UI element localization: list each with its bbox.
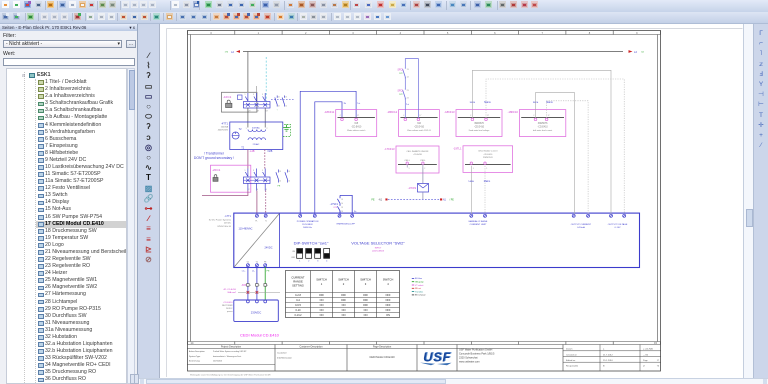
green PE link to ground xyxy=(283,125,291,137)
junction dot left xyxy=(386,199,388,201)
cable marker line xyxy=(238,291,280,293)
switch -17SF1 bracket xyxy=(339,211,341,215)
left drawing tool strip xyxy=(139,24,159,384)
signal wire -19TL1 lane to module xyxy=(470,166,472,215)
toolbar row 2 xyxy=(0,12,768,24)
terminal pair output voltage xyxy=(610,214,613,217)
auxiliary contacts -2FC1 xyxy=(278,170,280,173)
target arrow L2 right xyxy=(623,50,633,53)
indicator lamp symbol xyxy=(232,132,239,139)
toolbar row 1 xyxy=(0,0,768,12)
signal wire -19TL1 mains to module dashed xyxy=(484,166,486,215)
left pages panel xyxy=(0,24,138,384)
circuit breaker -2FC1 enclosure xyxy=(211,165,251,192)
relay coil -17KF9 xyxy=(418,184,429,193)
white drawing canvas xyxy=(159,24,743,378)
relay box -18KF11 xyxy=(336,110,377,137)
ground symbol xyxy=(286,125,288,128)
wires breaker to transformer xyxy=(247,108,249,128)
rectifier load box xyxy=(234,300,278,321)
wire colour legend xyxy=(412,277,414,279)
converter section divider xyxy=(279,213,281,267)
signal route -18KF10 lane xyxy=(536,93,575,215)
relay box -18KF13 xyxy=(456,110,502,137)
signal route -18KF13 mains dashed xyxy=(486,79,624,214)
breaker poles -1FC1 xyxy=(247,93,249,101)
wire -17KF13 to -17KF9 xyxy=(422,168,424,184)
title block grid xyxy=(187,348,563,350)
converter diagonal xyxy=(234,214,279,267)
breaker contact row -1FC1 xyxy=(244,102,271,109)
wire L2 bus xyxy=(243,51,623,53)
auxiliary contacts -1FC1 xyxy=(276,96,278,98)
terminal pair cell inhibit xyxy=(470,214,473,217)
relay box -17KF13 cell inhibits xyxy=(396,146,439,173)
wire N2B dashed transformer to -2FC1 xyxy=(264,150,266,169)
wire drop from L2 to -1FC1 xyxy=(247,52,249,93)
sheet boundary lines xyxy=(166,29,168,378)
signal route -18KF13 lane xyxy=(472,70,611,214)
CEDI module main box xyxy=(234,213,640,267)
breaker poles -2FC1 xyxy=(247,169,249,177)
dashed link aux contacts xyxy=(271,99,295,101)
terminal L on module xyxy=(255,214,258,217)
frame column ticks bottom xyxy=(187,342,189,345)
wire stub at x258 xyxy=(256,86,258,92)
current range setting table xyxy=(286,271,400,318)
terminal pair output current xyxy=(572,214,575,217)
wire -17KF9 to N line xyxy=(422,193,424,200)
transformer -4TT1 box xyxy=(230,122,283,150)
right toolbar xyxy=(753,24,768,384)
drawing frame outer border xyxy=(188,31,661,372)
transformer primary winding xyxy=(248,130,266,132)
drawing frame inner border lines xyxy=(188,34,661,36)
signal route -18KF10 mains dashed xyxy=(547,101,589,215)
relay box -19TL1 cell module current xyxy=(463,146,513,173)
transformer secondary winding xyxy=(248,138,266,140)
source arrow L2 left xyxy=(236,50,246,53)
frame column ticks top xyxy=(187,31,189,35)
panel bottom scroll buttons xyxy=(130,374,135,384)
wire module to -18KF11 right xyxy=(300,91,356,214)
terminal N on module xyxy=(264,214,267,217)
wire -2FC1 to CEDI L xyxy=(256,191,258,215)
module output terminals U2 V2 PE xyxy=(246,264,249,267)
horizontal scrollbar xyxy=(139,378,768,384)
terminal pair power operation xyxy=(299,214,302,217)
terminal strip -X05 xyxy=(247,284,250,287)
cyan dashed potential line xyxy=(265,57,267,107)
wire L1- down xyxy=(256,267,258,300)
dashed neutral line xyxy=(388,198,440,200)
breaker contact row -2FC1 xyxy=(244,177,271,184)
wire L1+ down xyxy=(247,267,249,300)
lock icon -1FC1 xyxy=(226,103,232,107)
wire module to -18KF11 left xyxy=(315,102,342,214)
circuit breaker -1FC1 enclosure xyxy=(222,92,257,112)
relay box -18KF12 xyxy=(399,110,440,137)
lock icon -2FC1 xyxy=(213,178,218,182)
terminal pair energized xyxy=(338,214,341,217)
wire -2FC1 to CEDI N dashed xyxy=(265,191,267,215)
vertical scrollbar xyxy=(743,24,753,378)
contact bracket -2FC1 to -18KF12 xyxy=(405,59,418,118)
relay box -18KF10 xyxy=(519,110,565,137)
wire -2FC1 to DC supply left xyxy=(202,191,248,196)
wire L2B transformer to -2FC1 xyxy=(247,150,249,169)
wire PE down green xyxy=(264,267,266,300)
switch -17SF1 contacts xyxy=(337,199,340,204)
junction dot right xyxy=(440,199,442,201)
